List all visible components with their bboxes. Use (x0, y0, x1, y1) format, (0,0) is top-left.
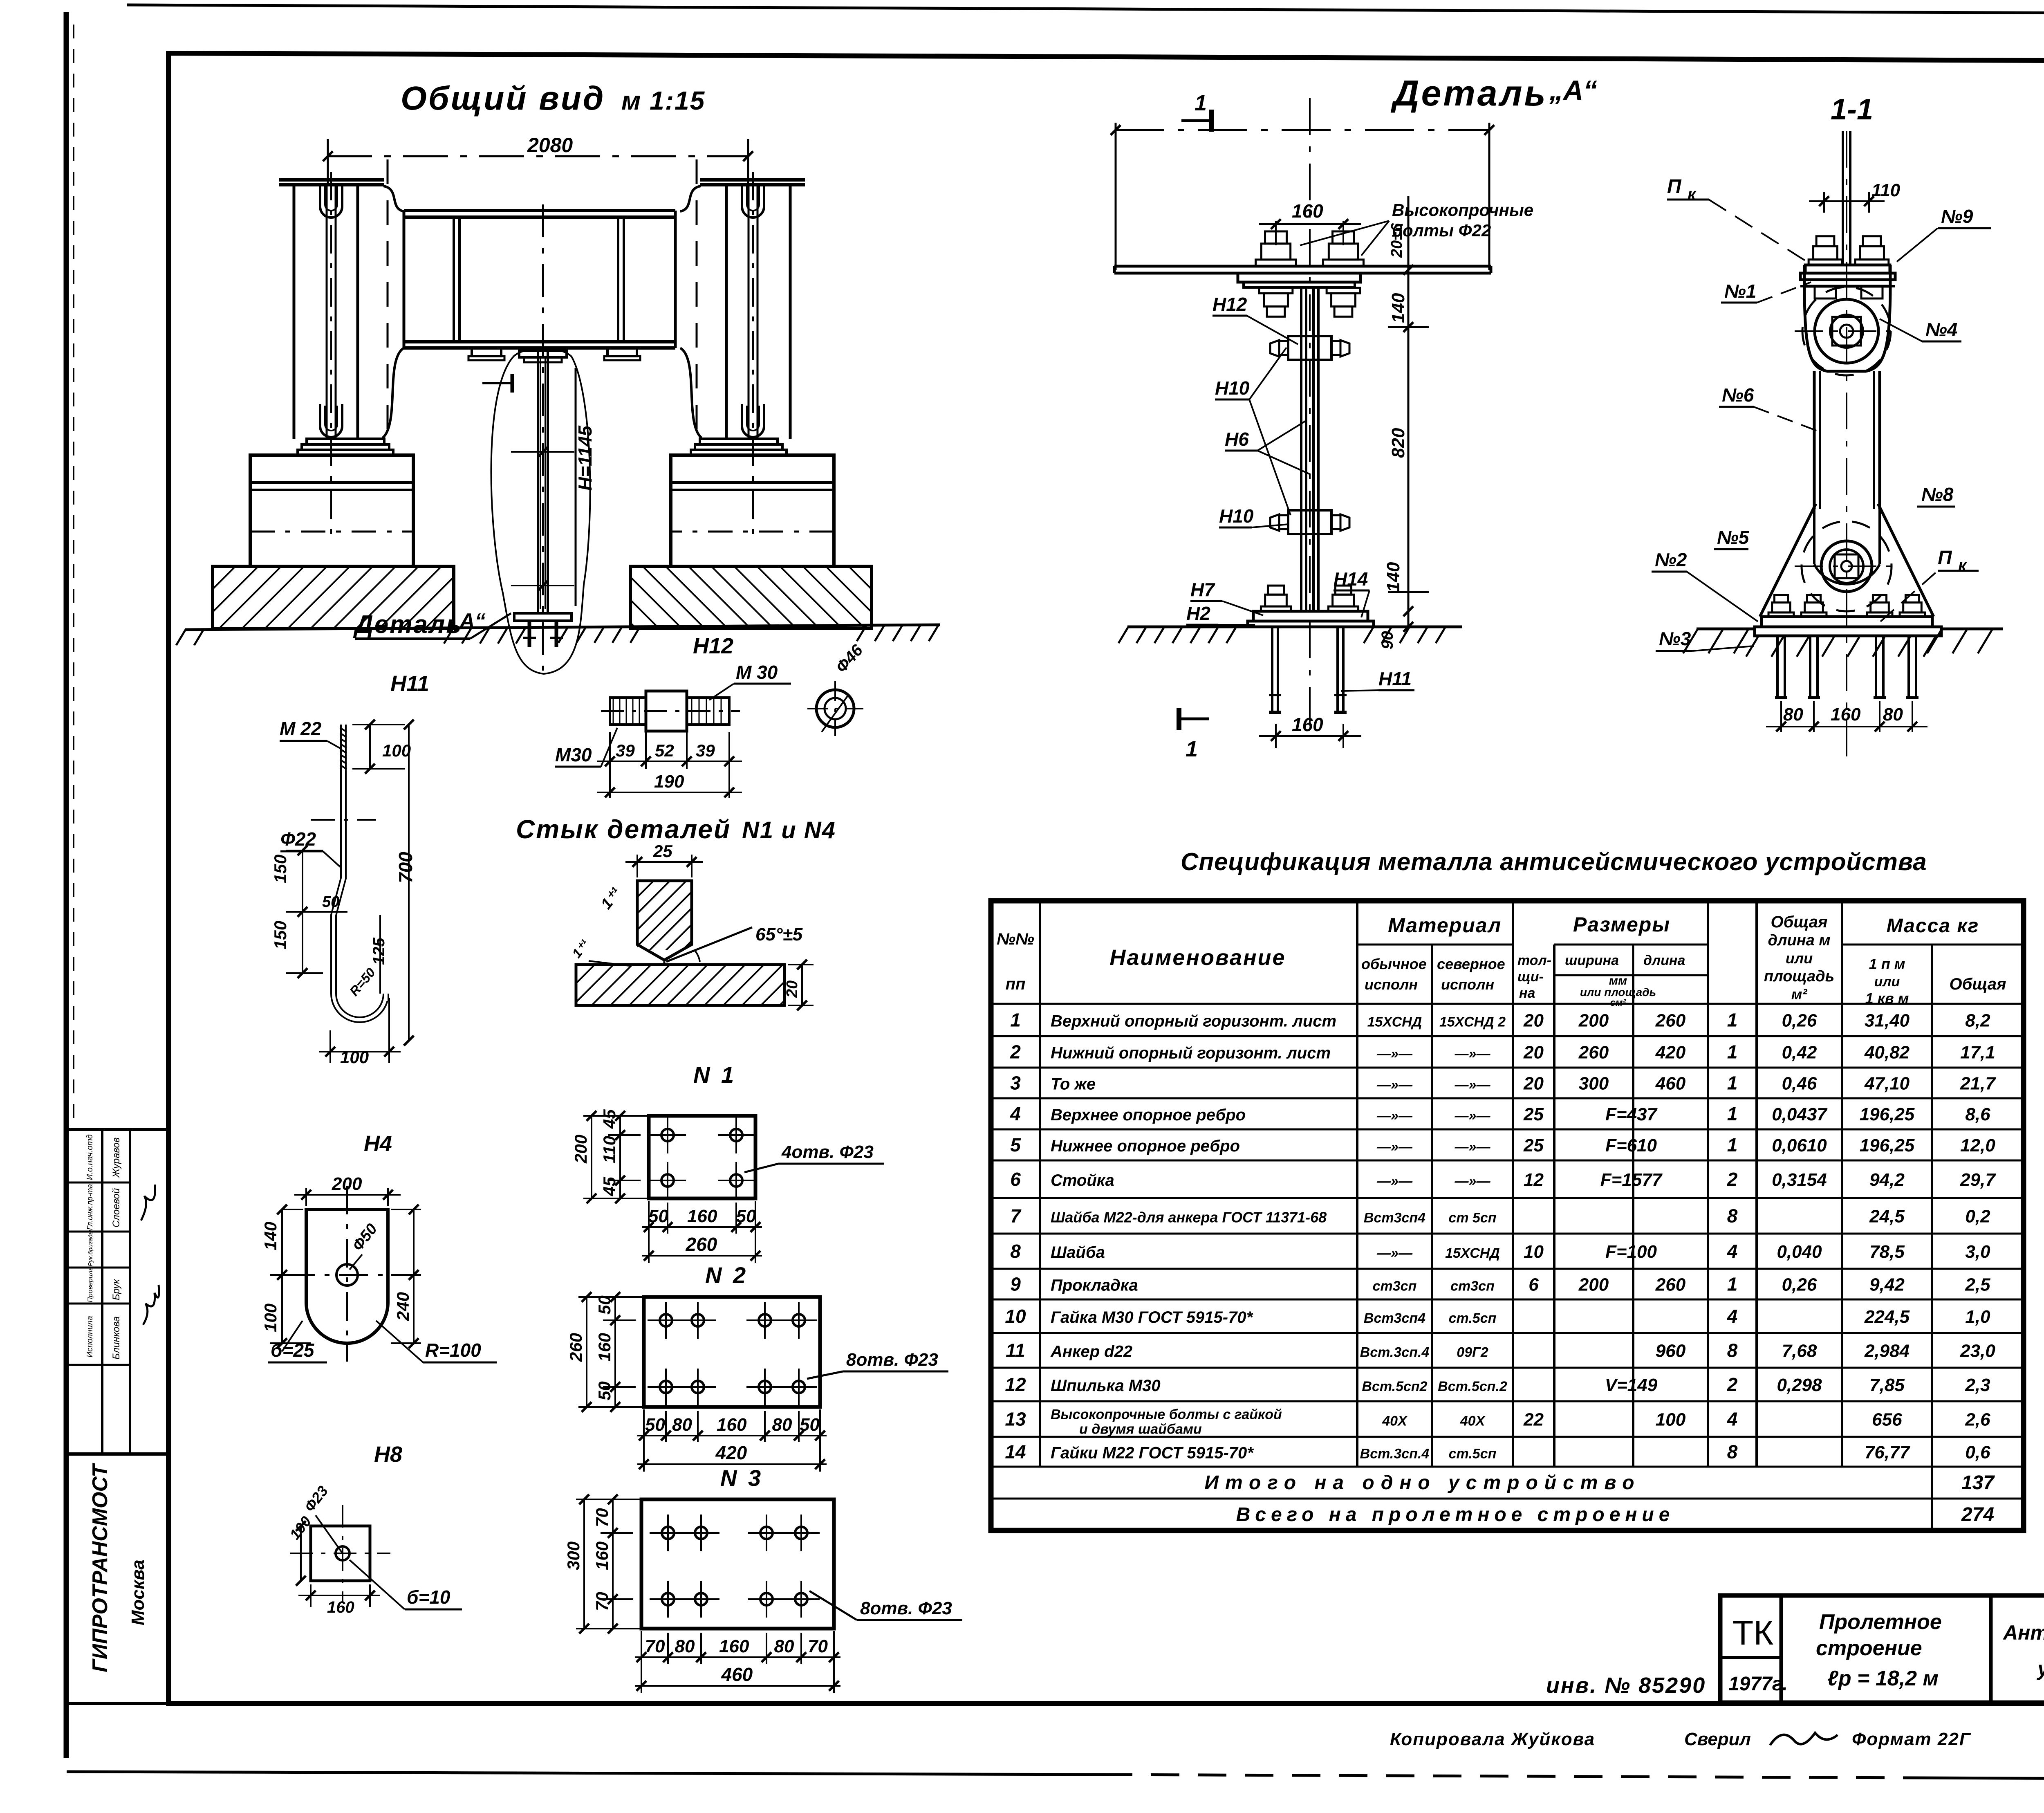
svg-text:1: 1 (1727, 1134, 1738, 1156)
svg-text:—»—: —»— (1376, 1046, 1413, 1062)
svg-text:4: 4 (1010, 1103, 1021, 1124)
svg-text:F=610: F=610 (1605, 1135, 1657, 1156)
svg-text:Сверил: Сверил (1684, 1729, 1751, 1749)
svg-text:0,26: 0,26 (1782, 1011, 1817, 1031)
svg-text:F=100: F=100 (1605, 1242, 1657, 1262)
svg-text:№2: №2 (1655, 549, 1687, 570)
svg-text:25: 25 (1523, 1104, 1544, 1124)
svg-text:исполн: исполн (1441, 976, 1494, 993)
detail A ground line (1127, 626, 1248, 628)
svg-text:50: 50 (322, 893, 339, 911)
svg-text:№5: №5 (1717, 527, 1750, 548)
section 1-1 pivot housing upper (1804, 265, 1890, 371)
section 1-1 anchor bolt nuts (1768, 613, 1794, 617)
general view beam dashed outline (387, 159, 389, 442)
general view dimension 2080 (327, 155, 749, 157)
svg-text:2,3: 2,3 (1965, 1375, 1990, 1395)
svg-text:исполн: исполн (1365, 976, 1418, 993)
svg-text:260: 260 (566, 1333, 585, 1362)
part H4 hole (336, 1264, 358, 1286)
svg-text:1: 1 (1727, 1103, 1738, 1124)
svg-text:Общий вид: Общий вид (401, 80, 605, 117)
part H8 dims (310, 1584, 312, 1607)
detail A section cut mark 1 top (1181, 119, 1212, 122)
svg-text:52: 52 (655, 741, 674, 760)
svg-text:П: П (1938, 547, 1952, 569)
svg-text:420: 420 (1655, 1043, 1686, 1063)
general view span beam (404, 209, 675, 212)
section 1-1 strut (1813, 371, 1816, 509)
svg-text:м 1:15: м 1:15 (621, 86, 705, 115)
svg-text:Шпилька М30: Шпилька М30 (1051, 1377, 1161, 1395)
plate N 2 outline (644, 1297, 820, 1407)
detail A bearing pad under plate (1238, 273, 1360, 282)
svg-text:20: 20 (1523, 1074, 1544, 1094)
svg-text:Исполнила: Исполнила (85, 1316, 94, 1358)
svg-text:110: 110 (600, 1136, 619, 1163)
detail A high-strength bolts (1256, 260, 1296, 266)
svg-text:460: 460 (721, 1664, 753, 1685)
stamp column institute name ГИПРОТРАНСМОСТ Москва (67, 1454, 168, 1703)
svg-text:Вст3сп4: Вст3сп4 (1364, 1310, 1425, 1326)
svg-text:пп: пп (1006, 975, 1026, 993)
svg-text:45: 45 (600, 1177, 619, 1196)
svg-text:Проверила: Проверила (86, 1267, 94, 1302)
svg-text:274: 274 (1961, 1504, 1994, 1526)
plate N 3 holes (662, 1527, 674, 1539)
section 1-1 centerline (1846, 131, 1847, 756)
svg-text:ст3сп: ст3сп (1450, 1279, 1495, 1294)
svg-text:—»—: —»— (1455, 1077, 1491, 1093)
svg-text:1,0: 1,0 (1965, 1307, 1990, 1327)
detail A top support plate (1114, 265, 1491, 268)
svg-text:80: 80 (1883, 705, 1903, 725)
svg-text:Вст.5сп2: Вст.5сп2 (1362, 1379, 1427, 1394)
detail A bolt spacing dim 160 (1275, 221, 1277, 245)
svg-text:или: или (1786, 950, 1813, 967)
plate N 2 bottom dimension chain (643, 1409, 645, 1472)
svg-text:25: 25 (1523, 1135, 1544, 1156)
svg-text:125: 125 (370, 938, 388, 965)
svg-text:50: 50 (595, 1381, 614, 1400)
svg-text:Гайка М30 ГОСТ 5915-70*: Гайка М30 ГОСТ 5915-70* (1051, 1308, 1254, 1326)
svg-text:обычное: обычное (1361, 956, 1427, 972)
svg-text:0,040: 0,040 (1777, 1242, 1822, 1262)
svg-text:М30: М30 (555, 744, 592, 765)
svg-text:200: 200 (1578, 1275, 1609, 1295)
svg-text:Рук.бригады: Рук.бригады (87, 1230, 94, 1266)
svg-text:Н11: Н11 (1378, 668, 1412, 689)
svg-text:2,984: 2,984 (1864, 1341, 1910, 1361)
svg-text:140: 140 (1383, 562, 1403, 592)
part H4 left dims 140 100 (282, 1209, 303, 1210)
svg-text:12: 12 (1524, 1170, 1544, 1190)
svg-text:—»—: —»— (1376, 1245, 1413, 1261)
svg-text:12,0: 12,0 (1960, 1135, 1995, 1156)
svg-text:80: 80 (1783, 705, 1803, 725)
spec table outer border (991, 901, 2024, 1530)
svg-text:0,2: 0,2 (1965, 1207, 1990, 1227)
svg-text:200: 200 (332, 1174, 362, 1194)
svg-text:460: 460 (1655, 1074, 1686, 1094)
svg-text:65°±5: 65°±5 (755, 924, 803, 945)
svg-text:80: 80 (772, 1415, 792, 1435)
svg-text:10: 10 (1524, 1242, 1544, 1262)
svg-text:7,85: 7,85 (1869, 1375, 1905, 1395)
svg-text:Н10: Н10 (1219, 505, 1254, 527)
svg-text:Н2: Н2 (1186, 603, 1210, 624)
section 1-1 ground line (1697, 628, 1755, 631)
svg-text:50: 50 (648, 1206, 668, 1226)
general view anti-seismic rod (537, 348, 539, 613)
svg-text:Общая: Общая (1949, 975, 2006, 993)
plate N 1 left dimension chain (583, 1115, 661, 1117)
weld detail vertical plate (637, 881, 692, 960)
weld detail gap lines (663, 960, 666, 965)
svg-text:70: 70 (808, 1636, 828, 1656)
svg-text:П: П (1667, 176, 1682, 197)
svg-text:45: 45 (600, 1109, 619, 1129)
svg-text:Спецификация металла антисейсм: Спецификация металла антисейсмического у… (1181, 848, 1927, 875)
svg-text:224,5: 224,5 (1864, 1307, 1910, 1327)
svg-text:ст.5сп: ст.5сп (1449, 1446, 1497, 1462)
svg-text:1: 1 (1186, 737, 1198, 761)
svg-text:Н12: Н12 (693, 634, 733, 658)
svg-text:ширина: ширина (1565, 953, 1619, 968)
svg-text:76,77: 76,77 (1865, 1443, 1911, 1463)
svg-text:160: 160 (717, 1415, 747, 1435)
svg-text:4: 4 (1727, 1306, 1738, 1327)
svg-text:№1: №1 (1724, 280, 1756, 302)
svg-text:240: 240 (393, 1292, 412, 1321)
svg-text:25: 25 (653, 841, 672, 861)
general view ground line (185, 625, 940, 630)
svg-text:площадь: площадь (1764, 968, 1834, 985)
svg-text:190: 190 (654, 772, 684, 792)
svg-text:50: 50 (645, 1415, 665, 1435)
svg-text:Вст.5сп.2: Вст.5сп.2 (1438, 1379, 1507, 1394)
svg-text:70: 70 (592, 1508, 612, 1527)
section 1-1 top bearing plates (1805, 265, 1890, 273)
svg-text:—»—: —»— (1376, 1174, 1413, 1189)
svg-text:20: 20 (1523, 1043, 1544, 1063)
svg-text:Н12: Н12 (1213, 294, 1247, 315)
svg-text:196,25: 196,25 (1860, 1135, 1915, 1156)
svg-text:м²: м² (1791, 986, 1808, 1003)
section 1-1 upper pin circles (1815, 299, 1878, 363)
general view section mark near rod (482, 382, 513, 384)
svg-text:50: 50 (595, 1295, 614, 1315)
svg-text:Слоевой: Слоевой (111, 1188, 122, 1227)
detail A turnbuckle coupling upper (1288, 336, 1331, 360)
svg-text:2: 2 (1010, 1041, 1021, 1063)
section 1-1 bottom dims 80 160 80 (1780, 701, 1782, 732)
svg-text:200: 200 (571, 1135, 590, 1164)
svg-text:Копировала Жуйкова: Копировала Жуйкова (1390, 1729, 1595, 1749)
svg-text:N 3: N 3 (720, 1465, 763, 1491)
svg-text:8: 8 (1010, 1241, 1021, 1262)
section 1-1 base gusset (1760, 504, 1816, 617)
svg-text:Анкер d22: Анкер d22 (1050, 1343, 1132, 1361)
svg-text:ТК: ТК (1732, 1613, 1773, 1652)
svg-text:№9: №9 (1941, 206, 1973, 227)
svg-text:Гайки М22 ГОСТ 5915-70*: Гайки М22 ГОСТ 5915-70* (1051, 1444, 1254, 1462)
svg-text:78,5: 78,5 (1869, 1242, 1905, 1262)
svg-text:северное: северное (1437, 956, 1505, 972)
svg-text:20: 20 (1523, 1011, 1544, 1031)
svg-text:б=10: б=10 (407, 1586, 450, 1608)
section 1-1 top bolts (1809, 260, 1842, 265)
general view right column of pier (mirror) (551, 172, 934, 628)
svg-text:и двумя шайбами: и двумя шайбами (1079, 1422, 1202, 1437)
svg-text:8отв. Ф23: 8отв. Ф23 (860, 1598, 952, 1618)
svg-text:V=149: V=149 (1605, 1375, 1658, 1395)
svg-text:0,0437: 0,0437 (1772, 1104, 1828, 1124)
svg-text:ст.5сп: ст.5сп (1449, 1310, 1497, 1326)
spec table header split ширина/длина (1632, 945, 1634, 975)
svg-text:8,6: 8,6 (1965, 1104, 1990, 1124)
svg-text:7,68: 7,68 (1782, 1341, 1817, 1361)
svg-text:15ХСНД 2: 15ХСНД 2 (1439, 1014, 1506, 1030)
svg-text:160: 160 (595, 1333, 614, 1362)
weld detail dim 25 (637, 855, 638, 877)
svg-text:ℓр = 18,2 м: ℓр = 18,2 м (1827, 1667, 1939, 1690)
svg-text:12: 12 (1005, 1374, 1026, 1395)
title block outline (1720, 1595, 2044, 1703)
svg-text:№3: №3 (1659, 628, 1691, 649)
svg-text:длина м: длина м (1768, 932, 1830, 949)
part H12 stud body (610, 698, 646, 725)
svg-text:Журавов: Журавов (111, 1138, 122, 1178)
svg-text:260: 260 (686, 1234, 717, 1255)
svg-text:2: 2 (1727, 1374, 1738, 1395)
sheet bottom line below frame (67, 1772, 1104, 1775)
svg-text:160: 160 (1292, 200, 1323, 222)
svg-text:09Г2: 09Г2 (1457, 1345, 1488, 1360)
svg-text:2,6: 2,6 (1965, 1410, 1990, 1430)
general view anchor studs under rod (528, 621, 531, 647)
svg-text:Н11: Н11 (390, 671, 429, 696)
svg-text:Общая: Общая (1771, 913, 1827, 931)
svg-text:260: 260 (1655, 1275, 1686, 1295)
svg-text:140: 140 (1388, 293, 1408, 323)
plate N 3 left dimension chain (576, 1499, 654, 1500)
svg-text:1: 1 (1195, 91, 1207, 115)
detail A anchors below base (1271, 627, 1273, 712)
svg-text:Высокопрочные болты с гайкой: Высокопрочные болты с гайкой (1051, 1407, 1282, 1423)
part H4 right dim 240 (391, 1274, 421, 1276)
svg-text:9,42: 9,42 (1869, 1275, 1905, 1295)
svg-text:0,3154: 0,3154 (1772, 1170, 1827, 1190)
svg-text:700: 700 (395, 852, 416, 883)
part H4 centerlines (346, 1186, 348, 1362)
svg-text:Н8: Н8 (374, 1442, 402, 1467)
svg-text:Всего на пролетное строение: Всего на пролетное строение (1236, 1504, 1675, 1526)
svg-text:260: 260 (1655, 1011, 1686, 1031)
svg-text:Н14: Н14 (1334, 568, 1368, 590)
plate N 3 outline (641, 1499, 834, 1629)
svg-text:2080: 2080 (527, 134, 573, 157)
svg-text:ГИПРОТРАНСМОСТ: ГИПРОТРАНСМОСТ (88, 1463, 112, 1672)
part H4 dim 200 top (305, 1188, 307, 1206)
svg-text:50: 50 (800, 1415, 820, 1435)
svg-text:8: 8 (1727, 1441, 1738, 1463)
svg-text:б=25: б=25 (271, 1340, 315, 1361)
svg-text:Н4: Н4 (364, 1131, 392, 1156)
svg-text:Ф22: Ф22 (280, 828, 316, 850)
svg-text:Гл.инж.пр-та: Гл.инж.пр-та (86, 1184, 94, 1230)
sheet outer top edge line (127, 5, 2044, 15)
svg-text:160: 160 (1831, 705, 1861, 725)
spec table header lines (1039, 901, 1041, 1467)
svg-text:Москва: Москва (128, 1559, 148, 1625)
svg-text:17,1: 17,1 (1960, 1043, 1995, 1063)
svg-text:300: 300 (1579, 1074, 1609, 1094)
svg-text:Нижний опорный горизонт. лист: Нижний опорный горизонт. лист (1051, 1044, 1331, 1062)
svg-text:29,7: 29,7 (1960, 1170, 1996, 1190)
svg-text:Масса кг: Масса кг (1887, 915, 1979, 937)
svg-text:Н10: Н10 (1215, 377, 1250, 399)
svg-text:20: 20 (784, 981, 801, 998)
svg-text:23,0: 23,0 (1960, 1341, 1995, 1361)
plate N 1 holes (661, 1129, 674, 1141)
section 1-1 lower pin (1802, 521, 1892, 611)
svg-text:40,82: 40,82 (1864, 1043, 1910, 1063)
detail A right dimension chain (1407, 196, 1410, 270)
svg-text:80: 80 (774, 1636, 794, 1656)
svg-text:Размеры: Размеры (1573, 913, 1670, 936)
svg-text:Высокопрочные: Высокопрочные (1392, 200, 1533, 220)
svg-text:15ХСНД: 15ХСНД (1445, 1245, 1500, 1261)
svg-text:100: 100 (1656, 1410, 1686, 1430)
part H12 dims 39 52 39 190 (609, 732, 611, 798)
stamp column signature table (67, 1129, 168, 1454)
svg-text:Верхнее опорное ребро: Верхнее опорное ребро (1051, 1106, 1246, 1124)
svg-text:3,0: 3,0 (1965, 1242, 1990, 1262)
svg-text:200: 200 (1578, 1011, 1609, 1031)
svg-text:см²: см² (1610, 997, 1626, 1008)
weld detail dim 20 (788, 964, 814, 965)
svg-text:150: 150 (271, 855, 290, 883)
svg-text:39: 39 (696, 741, 715, 760)
svg-text:щи-: щи- (1517, 969, 1544, 985)
svg-text:Прокладка: Прокладка (1051, 1277, 1138, 1295)
svg-text:Деталь: Деталь (1390, 73, 1548, 113)
svg-text:47,10: 47,10 (1864, 1074, 1910, 1094)
detail A bottom dim 160 (1275, 724, 1277, 748)
detail A top dimension line (1115, 129, 1490, 131)
svg-text:№6: №6 (1722, 384, 1754, 406)
svg-text:Вст3сп4: Вст3сп4 (1364, 1210, 1425, 1226)
svg-text:100: 100 (340, 1048, 369, 1067)
svg-text:70: 70 (645, 1636, 665, 1656)
svg-text:Формат 22Г: Формат 22Г (1852, 1729, 1971, 1749)
svg-text:—»—: —»— (1455, 1174, 1491, 1189)
svg-text:N 2: N 2 (705, 1262, 748, 1288)
spec table header horizontal subdividers (1357, 944, 1432, 946)
svg-text:1 кв м: 1 кв м (1865, 990, 1909, 1007)
svg-text:Шайба М22-для анкера ГОСТ 1137: Шайба М22-для анкера ГОСТ 11371-68 (1051, 1209, 1327, 1226)
svg-text:656: 656 (1872, 1410, 1902, 1430)
svg-text:R=100: R=100 (425, 1340, 481, 1361)
title block TK cell (1780, 1595, 1783, 1703)
svg-text:140: 140 (261, 1222, 280, 1250)
svg-text:Н=1145: Н=1145 (574, 425, 596, 491)
section 1-1 dim 110 (1823, 192, 1825, 213)
svg-text:13: 13 (1005, 1409, 1026, 1430)
svg-text:1: 1 (1010, 1010, 1021, 1031)
svg-text:4: 4 (1727, 1241, 1738, 1262)
svg-text:6: 6 (1010, 1169, 1021, 1190)
part H11 threaded top hatch (340, 728, 347, 732)
svg-text:—»—: —»— (1376, 1108, 1413, 1124)
svg-text:тол-: тол- (1517, 953, 1551, 968)
svg-text:22: 22 (1523, 1410, 1544, 1430)
svg-text:100: 100 (382, 741, 411, 760)
svg-text:И.о.нач.отд: И.о.нач.отд (85, 1134, 94, 1180)
svg-text:Нижнее опорное ребро: Нижнее опорное ребро (1051, 1137, 1240, 1155)
svg-text:39: 39 (616, 741, 635, 760)
svg-text:11: 11 (1006, 1340, 1025, 1361)
svg-text:820: 820 (1388, 428, 1408, 458)
svg-text:или: или (1874, 974, 1900, 990)
svg-text:устройство: устройство (2036, 1657, 2044, 1680)
section 1-1 bolt tails below plate (1815, 286, 1836, 298)
washer Ф46 view (816, 690, 854, 727)
svg-text:31,40: 31,40 (1865, 1011, 1910, 1031)
svg-text:Итого на одно устройство: Итого на одно устройство (1204, 1472, 1641, 1494)
svg-text:Верхний опорный горизонт. лист: Верхний опорный горизонт. лист (1051, 1012, 1336, 1030)
svg-text:Антисейсмическое: Антисейсмическое (2002, 1621, 2044, 1644)
svg-text:10: 10 (1005, 1306, 1026, 1327)
svg-text:F=437: F=437 (1605, 1104, 1658, 1124)
svg-text:160: 160 (687, 1206, 717, 1226)
spec table row lines (991, 1003, 2024, 1005)
svg-text:Н7: Н7 (1190, 579, 1215, 600)
svg-text:N 1: N 1 (693, 1062, 736, 1088)
svg-text:20±6: 20±6 (1388, 223, 1405, 258)
svg-text:Стойка: Стойка (1051, 1171, 1114, 1189)
svg-text:—»—: —»— (1455, 1046, 1491, 1062)
svg-text:F=1577: F=1577 (1600, 1170, 1663, 1190)
weld detail horizontal plate (576, 965, 784, 1005)
svg-text:на: на (1519, 985, 1535, 1001)
plate N 3 bottom dimension chain (641, 1631, 642, 1693)
svg-text:160: 160 (719, 1636, 749, 1656)
plate N 1 bottom dimension chain (648, 1201, 650, 1263)
svg-text:№8: №8 (1921, 484, 1954, 505)
svg-text:Материал: Материал (1388, 914, 1502, 937)
svg-text:Наименование: Наименование (1109, 945, 1286, 970)
svg-text:Пролетное: Пролетное (1819, 1610, 1942, 1634)
detail A section cut mark 1 bottom (1178, 718, 1209, 720)
svg-text:—»—: —»— (1455, 1108, 1491, 1124)
svg-text:0,6: 0,6 (1965, 1443, 1990, 1463)
svg-text:100: 100 (261, 1304, 280, 1332)
svg-text:1 п м: 1 п м (1869, 956, 1905, 972)
svg-text:94,2: 94,2 (1869, 1170, 1905, 1190)
svg-text:40Х: 40Х (1382, 1414, 1408, 1429)
svg-text:0,42: 0,42 (1782, 1043, 1817, 1063)
part H11 centerline cross (311, 819, 376, 821)
svg-text:М 30: М 30 (736, 662, 778, 683)
svg-text:14: 14 (1005, 1441, 1026, 1463)
general view bearing pads under beam (472, 348, 501, 356)
svg-text:инв. № 85290: инв. № 85290 (1546, 1673, 1706, 1698)
svg-text:4: 4 (1727, 1409, 1738, 1430)
svg-text:Стык деталей: Стык деталей (516, 815, 731, 844)
svg-text:160: 160 (327, 1598, 354, 1616)
